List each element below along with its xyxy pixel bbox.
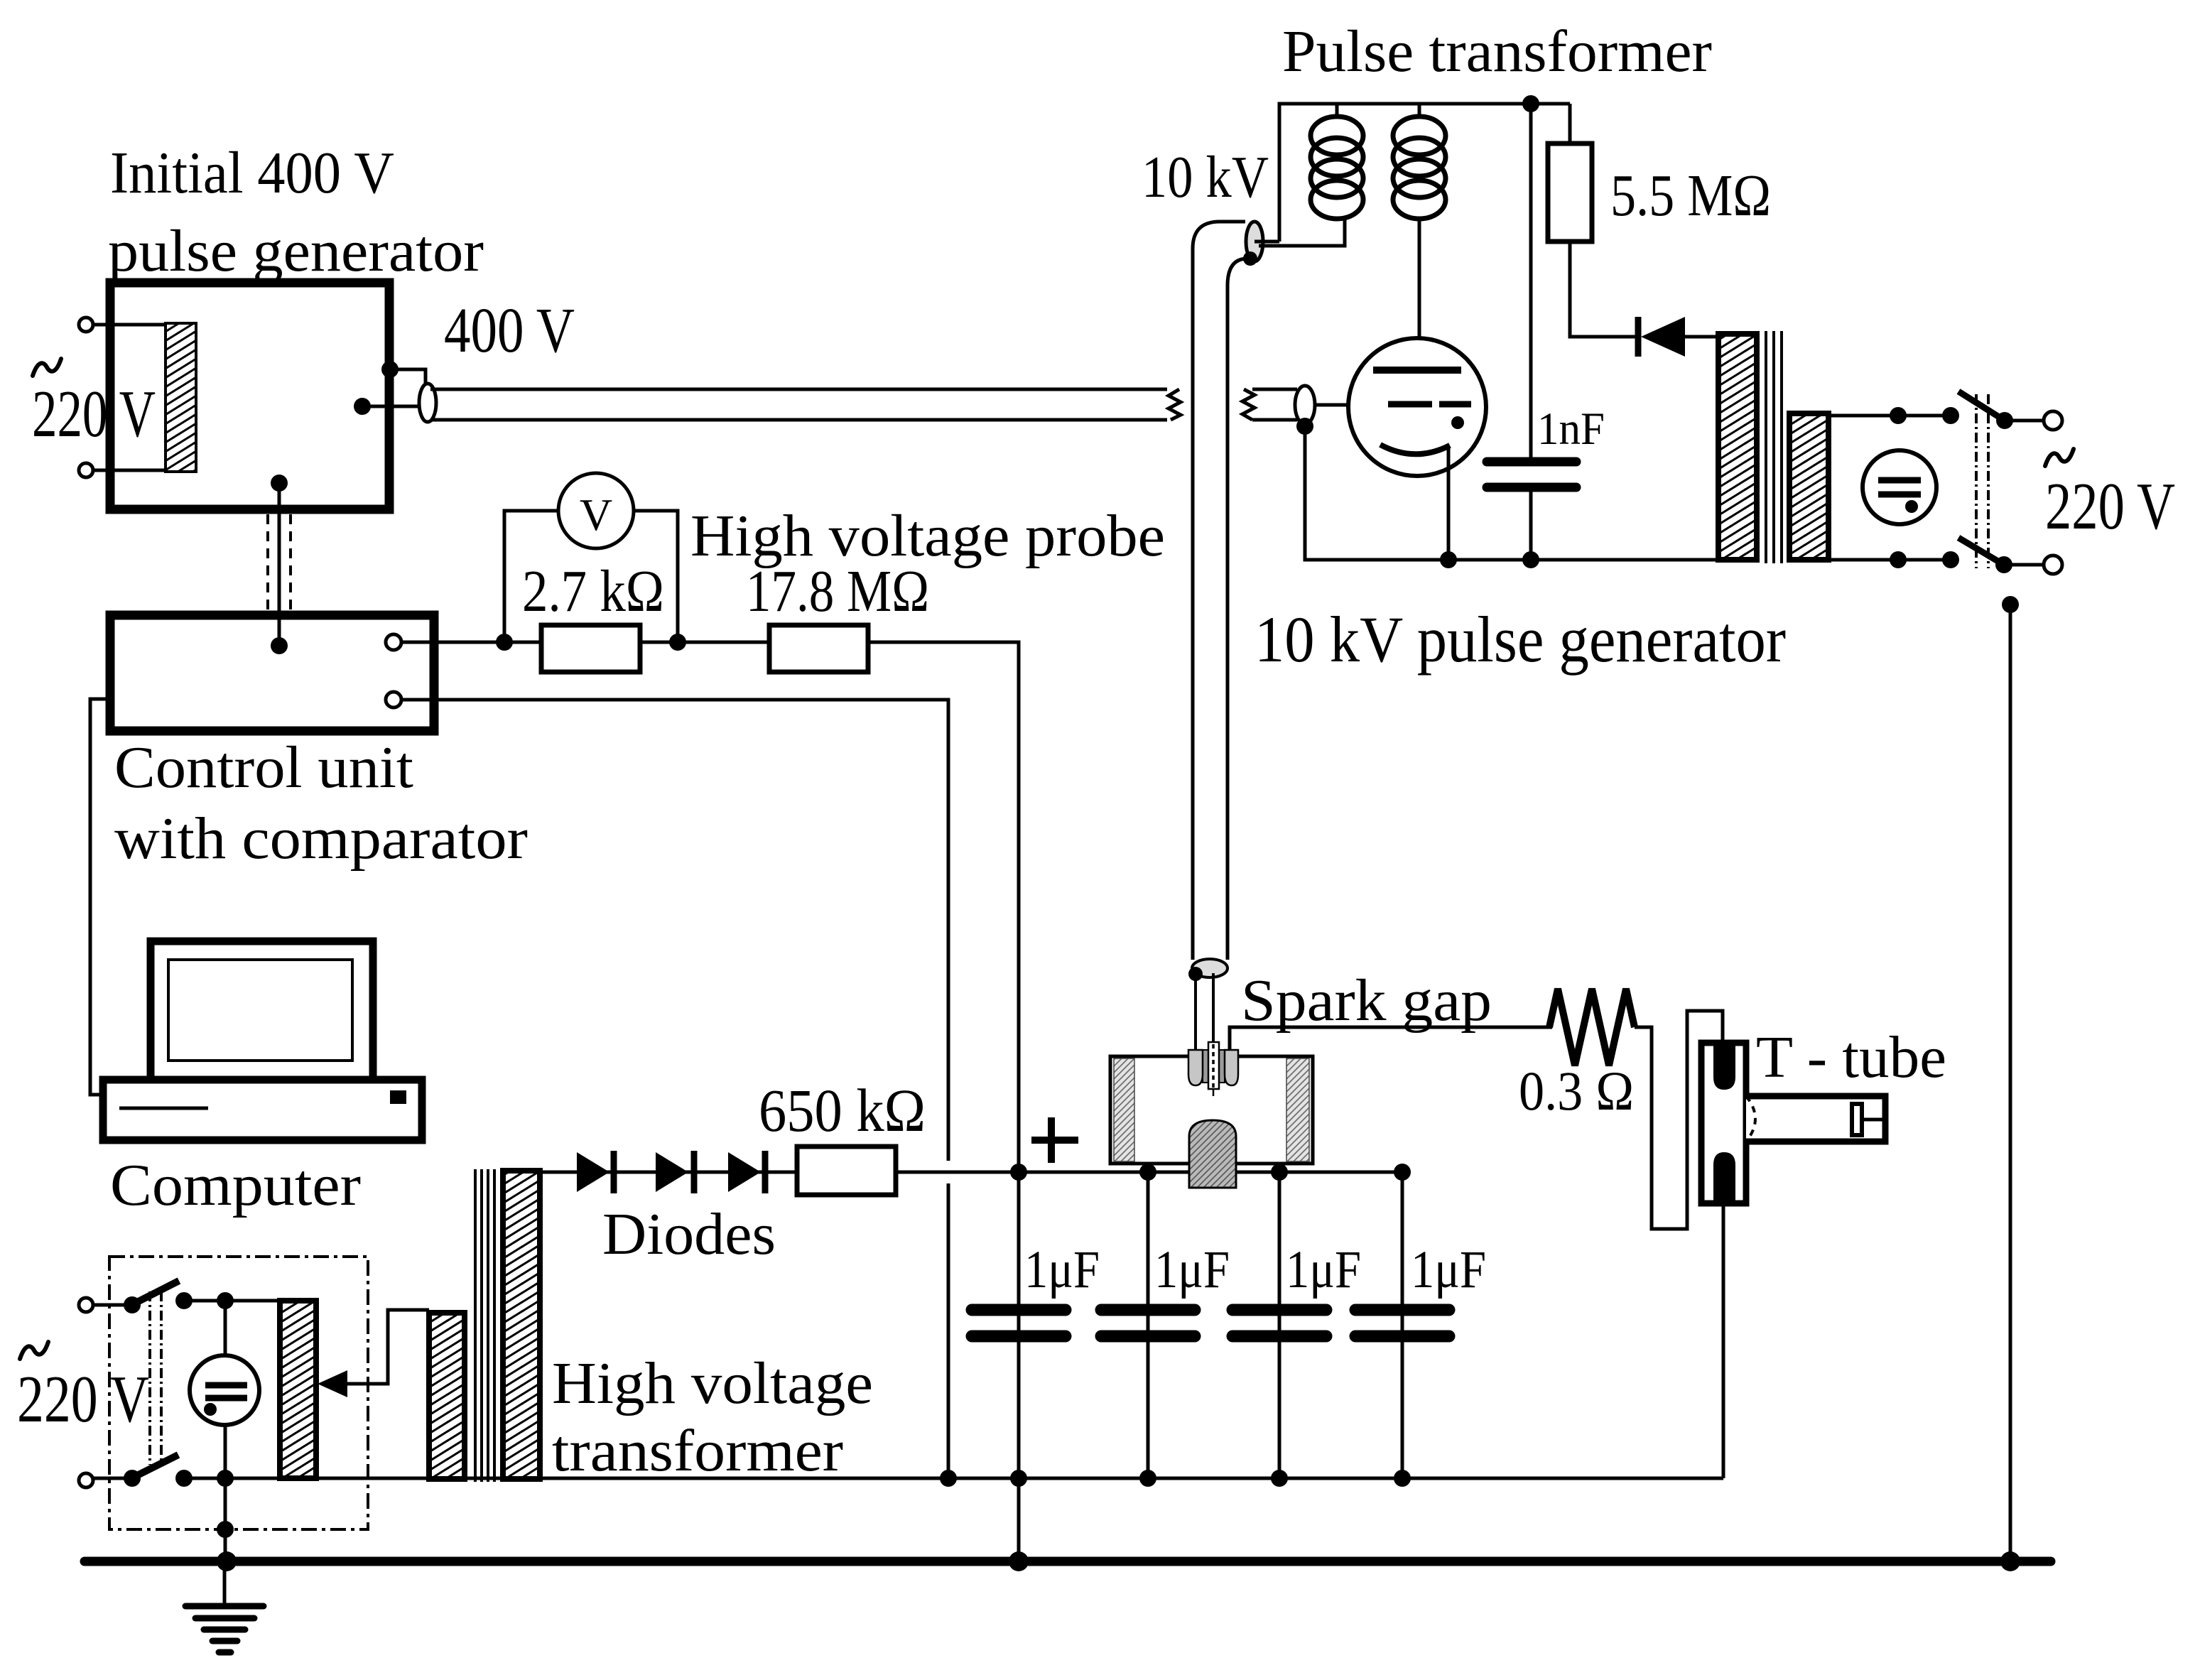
svg-text:T - tube: T - tube xyxy=(1756,1024,1946,1090)
svg-text:1μF: 1μF xyxy=(1024,1240,1100,1299)
svg-text:10 kV: 10 kV xyxy=(1142,144,1269,210)
svg-text:10 kV pulse generator: 10 kV pulse generator xyxy=(1255,603,1786,676)
svg-text:220 V: 220 V xyxy=(17,1362,149,1436)
svg-text:Spark gap: Spark gap xyxy=(1241,968,1492,1034)
svg-text:220 V: 220 V xyxy=(2045,470,2175,543)
svg-text:400 V: 400 V xyxy=(444,296,575,366)
svg-text:transformer: transformer xyxy=(552,1418,843,1484)
svg-text:Pulse transformer: Pulse transformer xyxy=(1282,18,1712,85)
svg-text:1μF: 1μF xyxy=(1154,1240,1230,1299)
svg-text:Diodes: Diodes xyxy=(602,1201,776,1267)
svg-text:Control unit: Control unit xyxy=(114,735,413,801)
svg-text:1μF: 1μF xyxy=(1286,1240,1361,1299)
svg-text:Initial 400 V: Initial 400 V xyxy=(110,140,394,206)
svg-text:High voltage probe: High voltage probe xyxy=(690,503,1165,569)
svg-text:5.5 MΩ: 5.5 MΩ xyxy=(1610,163,1771,229)
svg-text:1nF: 1nF xyxy=(1537,403,1605,455)
svg-text:V: V xyxy=(580,489,612,540)
svg-text:pulse generator: pulse generator xyxy=(108,218,484,284)
svg-text:1μF: 1μF xyxy=(1411,1240,1486,1299)
svg-text:0.3 Ω: 0.3 Ω xyxy=(1519,1060,1634,1122)
svg-text:220 V: 220 V xyxy=(32,377,156,451)
svg-text:with comparator: with comparator xyxy=(114,806,528,872)
svg-text:2.7 kΩ: 2.7 kΩ xyxy=(522,558,664,624)
svg-text:650 kΩ: 650 kΩ xyxy=(759,1076,926,1144)
svg-text:Computer: Computer xyxy=(110,1152,361,1218)
svg-text:High voltage: High voltage xyxy=(552,1350,873,1416)
